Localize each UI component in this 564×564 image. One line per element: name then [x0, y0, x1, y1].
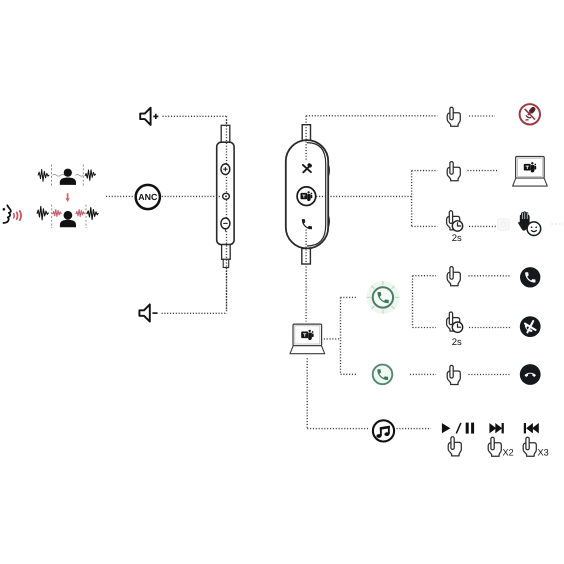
Teams button on remote — [297, 187, 316, 206]
button volume+ on left remote — [221, 164, 230, 175]
wire: junction to active call — [341, 373, 357, 375]
wire: teams button right — [316, 195, 411, 197]
speaker volume-up icon — [140, 108, 158, 125]
tap hand 2s (reject) — [447, 312, 463, 348]
dashed boundary right (bottom scene) — [85, 205, 87, 229]
right inline remote (Teams/call) — [286, 125, 329, 264]
mic muted icon (red) — [520, 104, 540, 124]
wire: vertical through left remote — [226, 116, 228, 313]
wire: junction vertical — [411, 171, 413, 227]
wire: answer tap to icon — [469, 275, 512, 277]
mic-mute X button on remote — [303, 163, 313, 173]
wire: junction to incoming call — [341, 296, 357, 298]
ghost app icon (faint) — [498, 219, 510, 231]
tap hand 2s (raise hand) — [447, 211, 463, 244]
wire: music to media controls — [397, 428, 432, 430]
cable bottom — [222, 245, 231, 260]
wire: junction to row2 — [412, 170, 438, 172]
left noise waveform (bottom scene) — [37, 206, 48, 219]
wire: mute tap to mute icon — [469, 115, 495, 117]
answer call icon — [520, 267, 540, 287]
remote body — [217, 142, 234, 244]
remote body pill — [286, 140, 328, 248]
wire: reject tap to icon — [469, 327, 511, 329]
wire: call junction vertical — [340, 297, 342, 374]
wire: 2s tap to raise-hand icon — [469, 225, 496, 227]
red arrow down (ANC effect) — [65, 193, 69, 202]
wire: illustration to ANC circle — [106, 195, 134, 197]
cable bottom — [302, 249, 311, 265]
wire: vol- to left remote — [162, 312, 227, 314]
laptop with Teams (hub) — [290, 324, 325, 354]
attenuated wave line left (top scene) — [53, 174, 65, 176]
wire: mute button up from remote — [305, 116, 307, 162]
wire: laptop down to music — [306, 358, 308, 428]
svg-text:X3: X3 — [538, 447, 549, 457]
wire: incoming junction to reject row — [413, 327, 437, 329]
wire: junction to row3 — [412, 225, 438, 227]
next track icon — [489, 423, 503, 433]
tap hand (mute) — [447, 107, 460, 126]
left inline remote (volume/ANC) — [217, 125, 234, 267]
wire: tap to laptop — [468, 170, 498, 172]
ANC circle — [136, 185, 160, 209]
attenuated wave line right (top scene) — [76, 174, 84, 176]
reject call icon — [520, 316, 541, 337]
wire: ANC circle to left remote — [162, 195, 221, 197]
play icon — [442, 423, 451, 433]
phone button on remote — [302, 219, 312, 229]
tap hand (play/pause) — [448, 437, 461, 456]
wire: remote to mute tap — [306, 115, 437, 117]
wire dots over remote body — [226, 120, 228, 310]
wire: vol+ to left remote — [163, 115, 227, 117]
dashed boundary right (top scene) — [82, 165, 84, 188]
side bump lower — [328, 216, 329, 227]
right noise waveform (bottom scene) — [87, 208, 98, 220]
wire: incoming junction to answer row — [413, 275, 437, 277]
end call icon — [520, 364, 541, 385]
tap hand (open teams) — [447, 162, 460, 181]
person silhouette (top scene) — [60, 169, 76, 185]
svg-text:2s: 2s — [452, 233, 462, 244]
wire: laptop to call junction — [324, 338, 341, 340]
incoming call icon (ringing green phone) — [366, 281, 399, 314]
pause icon — [466, 423, 474, 434]
music icon — [373, 420, 394, 441]
tap hand (end call) — [447, 365, 460, 384]
ANC illustration: bottom scene — [37, 205, 98, 229]
wire: end tap to icon — [469, 374, 512, 376]
cable top — [302, 125, 310, 141]
button volume- on left remote — [221, 218, 230, 232]
left noise waveform (top scene) — [38, 169, 49, 181]
wire: remote bottom to laptop — [305, 230, 307, 322]
side bump upper — [328, 165, 329, 176]
dashed boundary left (top scene) — [51, 165, 53, 188]
svg-text:2s: 2s — [452, 337, 462, 348]
person silhouette (bottom scene) — [60, 211, 76, 227]
speaking face profile — [3, 205, 11, 223]
laptop with Teams (right) — [513, 157, 548, 187]
slash — [456, 423, 461, 434]
faint trailing dots row3 — [552, 223, 564, 225]
red speech waves — [14, 211, 21, 220]
wire: incoming junction vertical — [412, 276, 414, 328]
raise hand icon (hand + smiley) — [518, 211, 541, 235]
ANC illustration: top scene — [38, 165, 96, 188]
red residual noise right (bottom scene) — [76, 210, 85, 217]
red residual noise left (bottom scene) — [53, 210, 62, 217]
dashed boundary left (bottom scene) — [51, 205, 53, 229]
active call icon (green phone) — [373, 365, 393, 385]
svg-text:X2: X2 — [503, 447, 514, 457]
tap hand x2 (next) — [488, 437, 514, 457]
tap hand x3 (previous) — [523, 437, 549, 457]
previous track icon — [524, 423, 539, 433]
tap hand (answer) — [447, 267, 460, 286]
wire: active call to end tap — [410, 373, 436, 375]
speaker volume-down icon — [139, 304, 157, 321]
cable top — [221, 125, 230, 143]
button ANC (middle) on left remote — [223, 193, 230, 199]
right noise waveform (top scene) — [85, 170, 96, 181]
svg-text:ANC: ANC — [138, 192, 158, 202]
